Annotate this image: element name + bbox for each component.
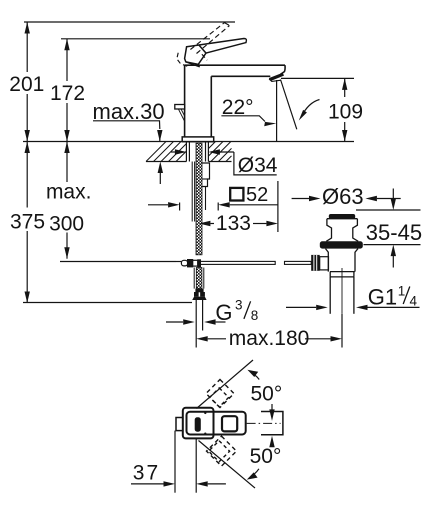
drain pop-up cap (black top disc) [329, 214, 355, 219]
faucet body outline [185, 65, 286, 137]
G3/8 connector nut [195, 289, 203, 292]
svg-text:G1: G1 [368, 285, 397, 310]
handle knuckle bottom edge [186, 62, 200, 67]
top view: aerator square [222, 416, 237, 431]
drain side port [320, 257, 329, 270]
svg-text:133: 133 [216, 212, 251, 235]
handle knuckle [185, 45, 206, 64]
dimension 201 line [25, 22, 30, 142]
threaded shank (checkered) upper [196, 143, 202, 255]
pull rod horizontal (to drain) : left thin extension [176, 261, 181, 263]
svg-text:G: G [215, 300, 232, 325]
top view: body square [183, 408, 214, 439]
spout underside [211, 75, 270, 77]
square52 symbol [230, 188, 243, 201]
max.30 bottom arrow [158, 162, 163, 174]
drain tailpipe [329, 277, 331, 314]
top view: dots [204, 412, 206, 414]
knurled knob (black) [311, 255, 320, 271]
dimension 35-45 extension lines [356, 209, 421, 211]
top view: spout arm [187, 412, 246, 435]
rotated square upper inner (dashed) [210, 388, 229, 407]
water stream line [281, 80, 297, 130]
pull rod knob (side view) [175, 105, 185, 110]
svg-text:max.: max. [46, 181, 92, 204]
handle lowered position (dashed) [177, 53, 207, 67]
counter top line [23, 141, 354, 143]
svg-text:50°: 50° [250, 445, 282, 468]
dimension max.375 bottom extension line [23, 302, 192, 304]
dimension max.180 line [196, 336, 208, 341]
svg-text:8: 8 [251, 308, 259, 323]
flexible hose lower (checkered) [196, 268, 202, 289]
rotated square lower inner (dashed) [209, 441, 230, 462]
svg-text:3: 3 [235, 298, 243, 313]
top view: right bracket [261, 412, 283, 435]
spout axis vertical line [276, 80, 278, 142]
50 deg lower vertical stub w/ arrow [269, 436, 274, 448]
spout right face [280, 65, 285, 74]
mounting hole walls in counter [185, 142, 187, 162]
drain centerline [341, 268, 343, 314]
dimension max.375 line [25, 142, 30, 304]
rotated square upper outer (dashed) [206, 380, 234, 408]
dimension 133 [199, 221, 211, 226]
fixing nut (stepped, right side) [202, 163, 209, 187]
50 deg lower diagonal line [199, 441, 256, 489]
svg-text:Ø63: Ø63 [322, 184, 364, 209]
50 deg upper diagonal line [197, 360, 254, 409]
dimension 172 extension line (handle top) [61, 38, 210, 40]
drain body below flange [326, 249, 359, 277]
rod segment faucet to break [200, 261, 275, 264]
dimension 109 extension line (outlet level) [281, 77, 354, 79]
dimension 35-45 arrows [392, 189, 394, 200]
top view: centerline (dash-dot) [247, 422, 281, 424]
spout aerator dark band [270, 73, 285, 81]
dimension max.300 bottom extension line [60, 261, 176, 263]
dimension square52 stub extension lines [179, 203, 181, 211]
G1 1/4 arrows/underline [286, 306, 316, 308]
under-counter tube walls [191, 162, 193, 222]
handle raised position (dashed) [190, 23, 229, 54]
svg-text:37: 37 [133, 462, 160, 485]
dimension diameter63 [292, 198, 309, 200]
max.30 top arrow [157, 130, 162, 142]
supply tube [195, 300, 197, 331]
handle lever arm [199, 39, 247, 54]
50 deg lower arc arrowhead at line [247, 472, 258, 479]
G3/8 arrows [166, 321, 183, 323]
svg-text:300: 300 [49, 213, 84, 236]
svg-text:50°: 50° [251, 383, 283, 406]
dimension 172 line [64, 39, 69, 142]
Ø34 label box leader [234, 152, 277, 175]
svg-text:1: 1 [398, 284, 406, 299]
50 deg upper vertical stub w/ arrow [271, 404, 273, 410]
max.30 underline and leader [93, 121, 160, 129]
spout axis extension (lower segment) [277, 181, 279, 232]
dimension Ø34 arrows [171, 151, 184, 153]
svg-text:35-45: 35-45 [366, 220, 422, 245]
dimension 37 extension lines [174, 431, 176, 493]
stream direction curved arrow [301, 100, 320, 118]
counter bottom line [146, 161, 186, 163]
dimension 37 line [131, 483, 164, 485]
dimension max.180 extension lines [195, 331, 197, 348]
svg-text:52: 52 [246, 184, 268, 206]
rod segment break to drain knob [285, 261, 312, 264]
base plate [182, 137, 214, 142]
dimension 201 extension line (top of raised handle) [24, 21, 235, 23]
dimension max.300 line [64, 142, 69, 259]
svg-text:109: 109 [328, 101, 363, 124]
svg-text:375: 375 [10, 211, 45, 234]
svg-text:4: 4 [410, 294, 418, 309]
spout aerator lip [269, 78, 281, 82]
dimension 109 line [342, 78, 347, 141]
drain flange (black) [320, 241, 363, 248]
shank tube walls in counter [188, 142, 190, 162]
rotated square lower outer (dashed) [207, 436, 237, 466]
pull rod shading strokes [178, 109, 184, 121]
50 deg upper arc arrowhead at line [247, 370, 258, 377]
svg-text:max.180: max.180 [229, 327, 310, 350]
svg-text:172: 172 [50, 82, 85, 105]
top view: handle black mark [195, 417, 201, 431]
rod tee connector at faucet [181, 260, 200, 267]
counter hatching [146, 142, 232, 162]
svg-text:201: 201 [9, 73, 44, 96]
svg-text:Ø34: Ø34 [238, 154, 278, 177]
top view: handle tab (left) [176, 418, 183, 431]
dimension square52 arrows [148, 204, 168, 206]
drain cap ring [326, 219, 358, 242]
